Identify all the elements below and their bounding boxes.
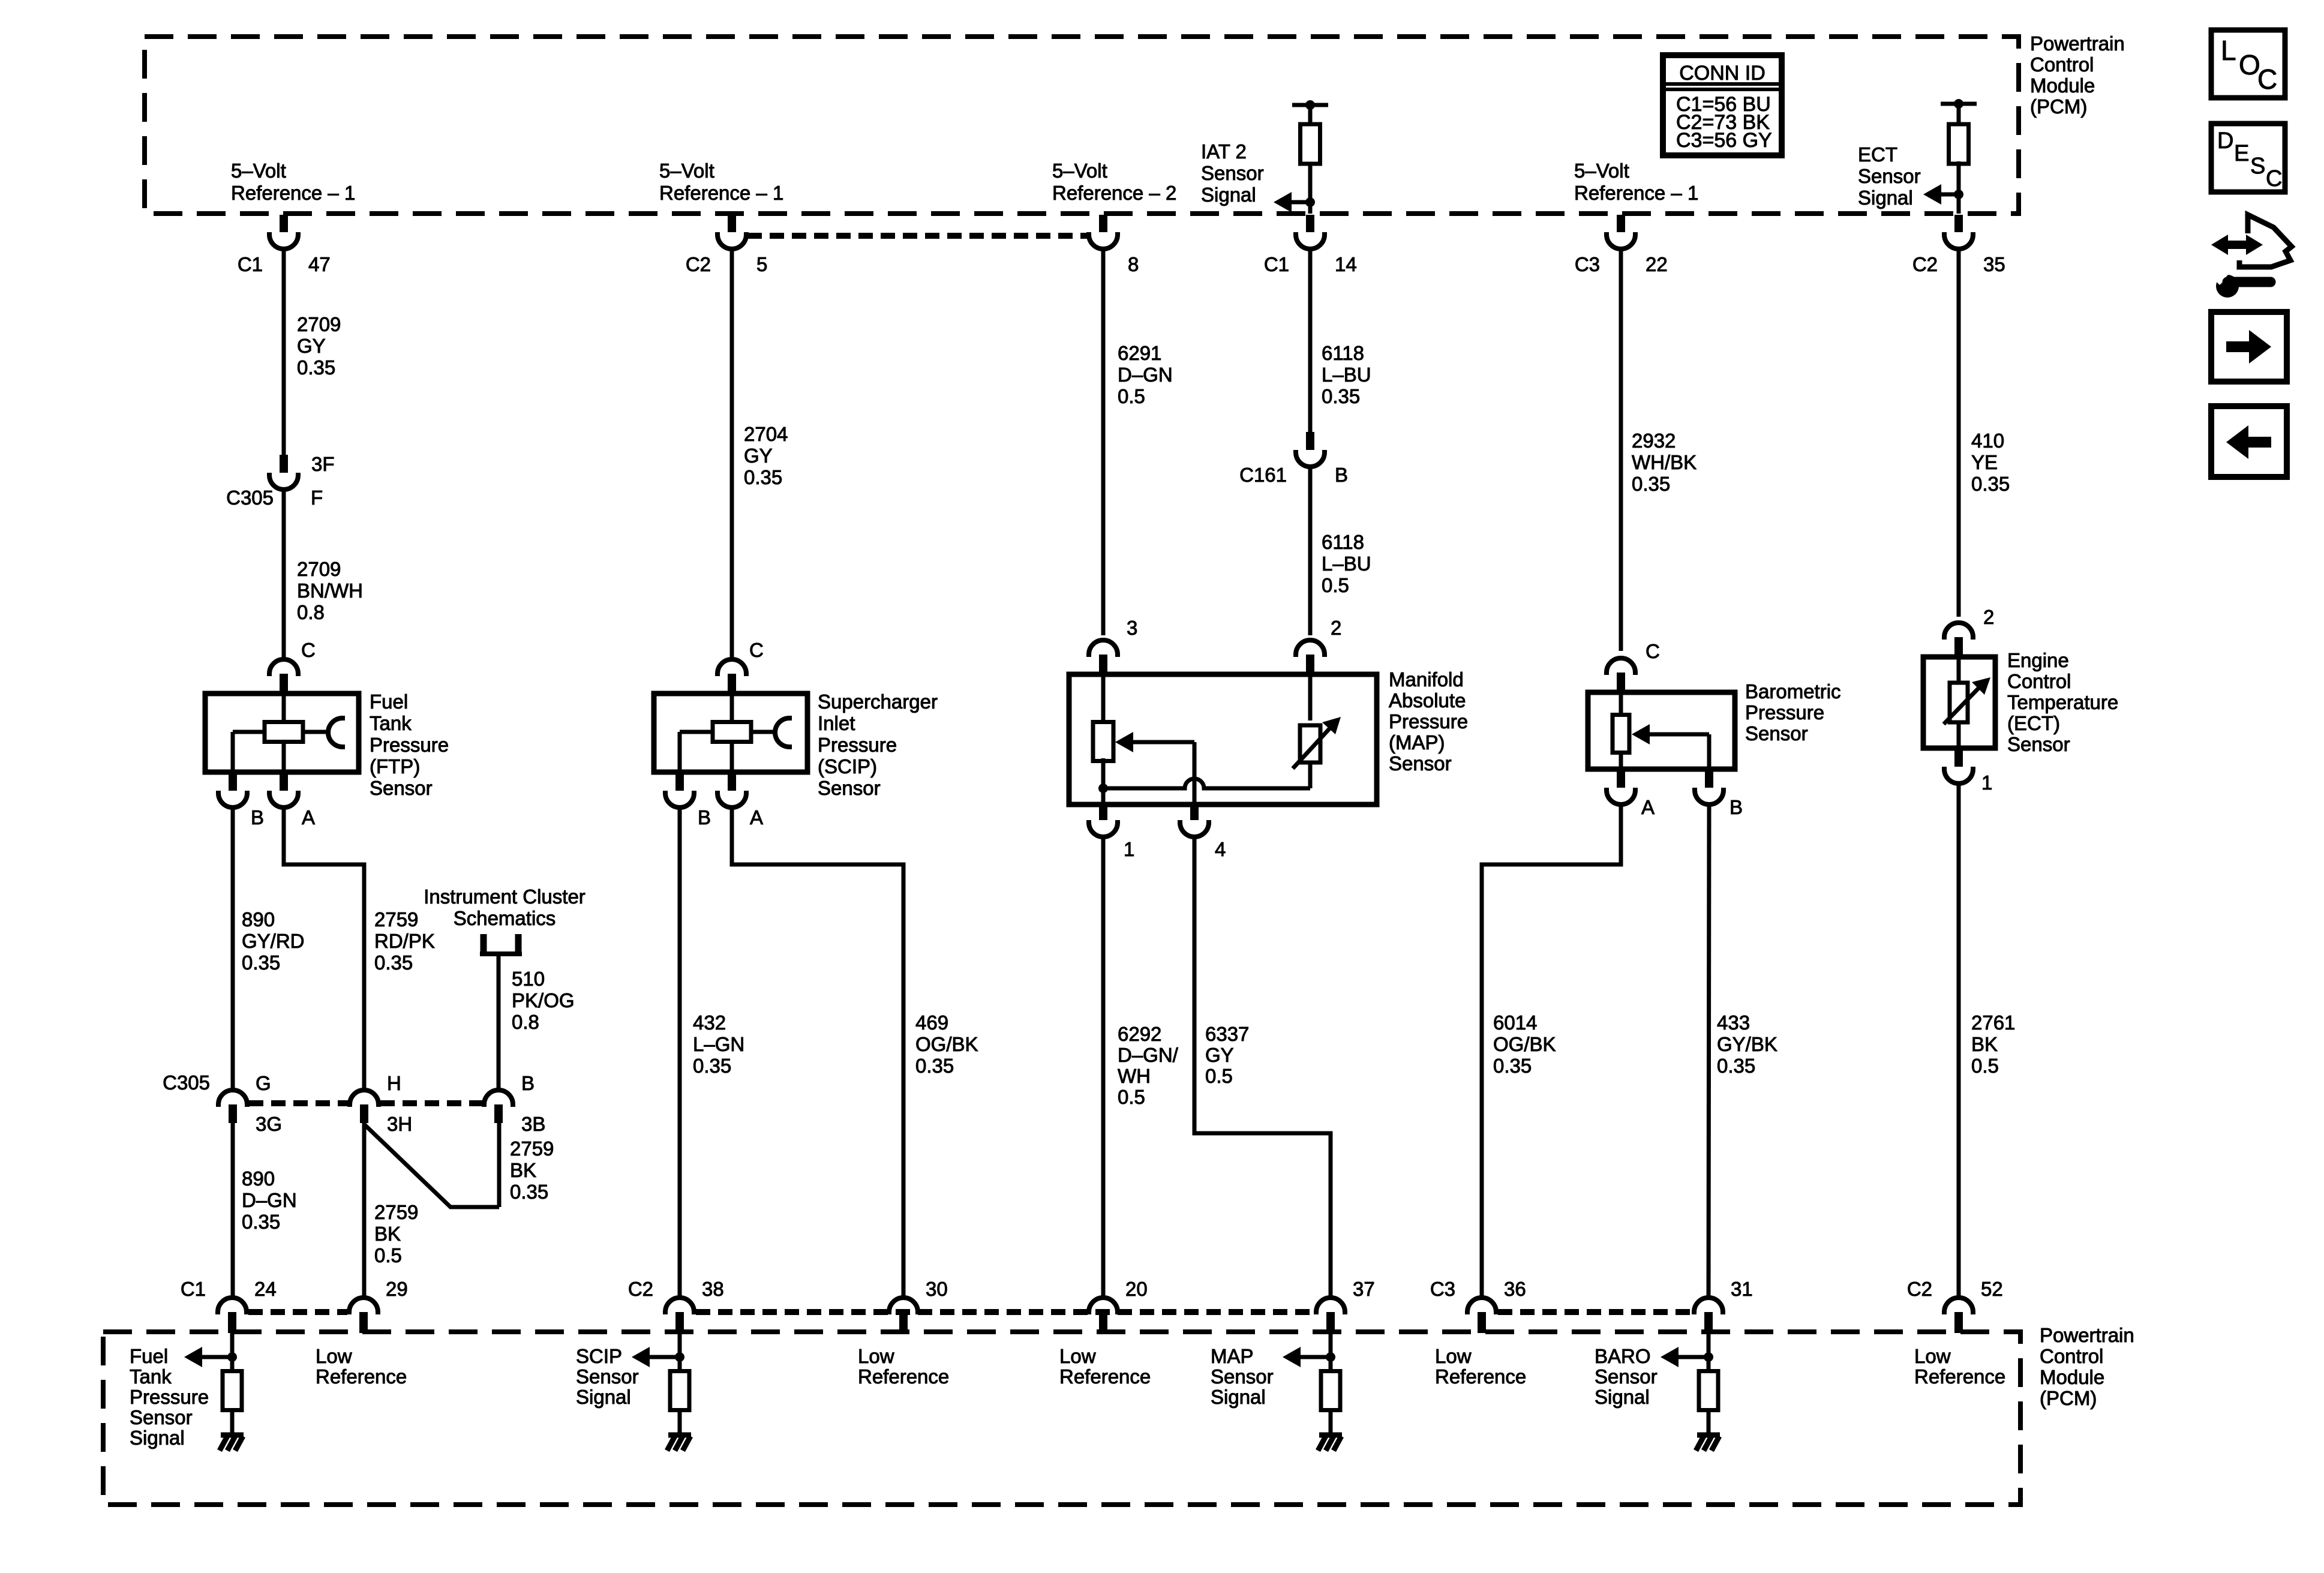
- svg-text:S: S: [2250, 154, 2265, 179]
- svg-text:Low: Low: [1914, 1345, 1951, 1367]
- svg-text:RD/PK: RD/PK: [374, 930, 435, 952]
- svg-text:C: C: [749, 639, 764, 661]
- svg-text:B: B: [1730, 796, 1743, 818]
- svg-text:L–GN: L–GN: [693, 1033, 744, 1055]
- svg-text:0.35: 0.35: [744, 466, 782, 488]
- svg-text:C2: C2: [686, 253, 711, 275]
- svg-text:2759: 2759: [374, 1201, 418, 1223]
- svg-text:6014: 6014: [1493, 1011, 1537, 1034]
- svg-text:Pressure: Pressure: [130, 1386, 209, 1408]
- svg-text:2709: 2709: [297, 558, 341, 580]
- svg-text:(FTP): (FTP): [370, 755, 420, 778]
- svg-text:3: 3: [1127, 617, 1137, 639]
- svg-text:0.8: 0.8: [512, 1011, 539, 1033]
- svg-text:5–Volt: 5–Volt: [231, 160, 286, 182]
- svg-text:2932: 2932: [1632, 430, 1676, 452]
- svg-text:2709: 2709: [297, 313, 341, 335]
- svg-text:IAT 2: IAT 2: [1201, 140, 1247, 163]
- svg-text:Fuel: Fuel: [370, 691, 408, 713]
- svg-text:L: L: [2221, 35, 2236, 66]
- svg-text:Reference – 1: Reference – 1: [659, 182, 783, 204]
- svg-text:0.5: 0.5: [1322, 574, 1349, 596]
- svg-text:C2: C2: [1907, 1278, 1932, 1300]
- svg-text:Signal: Signal: [1858, 187, 1913, 209]
- svg-text:Powertrain: Powertrain: [2030, 32, 2125, 55]
- svg-text:C3: C3: [1430, 1278, 1455, 1300]
- svg-text:890: 890: [242, 1167, 275, 1190]
- svg-text:BK: BK: [510, 1159, 536, 1181]
- svg-text:H: H: [387, 1072, 401, 1094]
- svg-text:0.35: 0.35: [1971, 473, 2010, 495]
- svg-text:Signal: Signal: [1211, 1386, 1266, 1408]
- svg-text:3F: 3F: [311, 453, 335, 475]
- svg-text:47: 47: [308, 253, 331, 275]
- svg-text:Sensor: Sensor: [1389, 752, 1452, 775]
- svg-text:CONN ID: CONN ID: [1679, 62, 1765, 85]
- svg-text:Sensor: Sensor: [2007, 733, 2070, 755]
- svg-text:ECT: ECT: [1858, 143, 1897, 166]
- svg-text:Signal: Signal: [1201, 184, 1256, 206]
- svg-text:C1: C1: [1264, 253, 1289, 275]
- svg-text:Control: Control: [2040, 1345, 2103, 1367]
- svg-text:1: 1: [1981, 772, 1992, 794]
- svg-text:2761: 2761: [1971, 1011, 2015, 1034]
- svg-text:Signal: Signal: [576, 1386, 631, 1408]
- svg-text:Sensor: Sensor: [1211, 1365, 1274, 1388]
- svg-text:Barometric: Barometric: [1745, 680, 1841, 703]
- svg-text:0.5: 0.5: [1118, 385, 1145, 407]
- svg-text:C2: C2: [628, 1278, 653, 1300]
- svg-text:F: F: [311, 487, 323, 509]
- svg-text:5–Volt: 5–Volt: [659, 160, 714, 182]
- svg-text:0.35: 0.35: [693, 1055, 731, 1077]
- svg-text:432: 432: [693, 1011, 726, 1034]
- svg-text:C305: C305: [226, 487, 274, 509]
- svg-text:Supercharger: Supercharger: [818, 691, 938, 713]
- svg-text:OG/BK: OG/BK: [915, 1033, 978, 1055]
- svg-text:Control: Control: [2030, 53, 2094, 76]
- svg-text:5–Volt: 5–Volt: [1574, 160, 1629, 182]
- svg-text:3B: 3B: [521, 1113, 545, 1135]
- svg-text:0.5: 0.5: [374, 1244, 402, 1266]
- svg-text:0.35: 0.35: [510, 1181, 548, 1203]
- svg-text:B: B: [1335, 464, 1348, 486]
- svg-text:Reference – 1: Reference – 1: [231, 182, 355, 204]
- svg-text:YE: YE: [1971, 451, 1998, 473]
- svg-text:37: 37: [1353, 1278, 1375, 1300]
- svg-text:PK/OG: PK/OG: [512, 989, 575, 1011]
- svg-text:A: A: [750, 806, 763, 828]
- svg-text:0.35: 0.35: [297, 356, 335, 379]
- svg-text:GY: GY: [297, 335, 326, 357]
- svg-text:8: 8: [1128, 253, 1139, 275]
- svg-text:52: 52: [1981, 1278, 2003, 1300]
- svg-text:A: A: [1641, 796, 1655, 818]
- svg-text:14: 14: [1335, 253, 1357, 275]
- svg-text:SCIP: SCIP: [576, 1345, 622, 1367]
- svg-text:A: A: [302, 806, 315, 828]
- svg-text:Pressure: Pressure: [1389, 710, 1468, 733]
- svg-text:Sensor: Sensor: [370, 777, 433, 799]
- svg-text:GY/RD: GY/RD: [242, 930, 305, 952]
- svg-text:Schematics: Schematics: [454, 907, 556, 929]
- svg-text:36: 36: [1504, 1278, 1526, 1300]
- svg-text:GY: GY: [744, 445, 773, 467]
- svg-text:2704: 2704: [744, 423, 788, 445]
- svg-text:30: 30: [926, 1278, 948, 1300]
- svg-text:D–GN: D–GN: [1118, 364, 1173, 386]
- svg-text:BARO: BARO: [1595, 1345, 1651, 1367]
- svg-text:C161: C161: [1239, 464, 1287, 486]
- svg-text:Reference: Reference: [858, 1365, 949, 1388]
- svg-text:B: B: [698, 806, 711, 828]
- svg-text:(PCM): (PCM): [2040, 1387, 2097, 1409]
- svg-text:0.35: 0.35: [242, 1211, 280, 1233]
- svg-text:433: 433: [1717, 1011, 1750, 1034]
- svg-text:24: 24: [254, 1278, 277, 1300]
- svg-text:510: 510: [512, 968, 545, 990]
- svg-text:29: 29: [386, 1278, 408, 1300]
- svg-text:0.5: 0.5: [1971, 1055, 1999, 1077]
- svg-text:5: 5: [756, 253, 767, 275]
- svg-text:0.35: 0.35: [1322, 385, 1360, 407]
- svg-text:Reference – 1: Reference – 1: [1574, 182, 1698, 204]
- svg-text:4: 4: [1215, 838, 1226, 860]
- svg-text:Fuel: Fuel: [130, 1345, 168, 1367]
- svg-text:6118: 6118: [1322, 342, 1364, 364]
- svg-text:38: 38: [702, 1278, 724, 1300]
- svg-text:C1: C1: [181, 1278, 206, 1300]
- svg-text:Control: Control: [2007, 670, 2071, 692]
- svg-text:0.35: 0.35: [374, 951, 413, 974]
- svg-text:0.5: 0.5: [1205, 1065, 1233, 1087]
- svg-text:D: D: [2217, 128, 2233, 154]
- svg-text:C3=56 GY: C3=56 GY: [1676, 129, 1772, 152]
- svg-text:Sensor: Sensor: [1201, 162, 1264, 184]
- svg-text:B: B: [251, 806, 264, 828]
- svg-text:D–GN: D–GN: [242, 1189, 297, 1211]
- svg-text:Reference: Reference: [1914, 1365, 2005, 1388]
- svg-text:Low: Low: [316, 1345, 352, 1367]
- svg-text:Sensor: Sensor: [130, 1406, 193, 1428]
- svg-text:GY: GY: [1205, 1044, 1234, 1066]
- svg-text:MAP: MAP: [1211, 1345, 1254, 1367]
- svg-text:Powertrain: Powertrain: [2040, 1324, 2134, 1346]
- svg-text:3H: 3H: [387, 1113, 412, 1135]
- svg-text:Inlet: Inlet: [818, 712, 855, 734]
- svg-text:Pressure: Pressure: [370, 734, 449, 756]
- svg-text:469: 469: [915, 1011, 948, 1034]
- svg-text:Reference – 2: Reference – 2: [1052, 182, 1176, 204]
- svg-text:3G: 3G: [256, 1113, 282, 1135]
- svg-text:Pressure: Pressure: [1745, 701, 1824, 724]
- svg-text:(SCIP): (SCIP): [818, 755, 877, 778]
- svg-text:35: 35: [1983, 253, 2005, 275]
- svg-text:L–BU: L–BU: [1322, 553, 1371, 575]
- svg-text:Reference: Reference: [1435, 1365, 1526, 1388]
- svg-text:Module: Module: [2040, 1366, 2104, 1388]
- svg-text:Instrument Cluster: Instrument Cluster: [424, 885, 585, 908]
- svg-text:410: 410: [1971, 430, 2004, 452]
- svg-text:0.35: 0.35: [1493, 1055, 1532, 1077]
- svg-text:Reference: Reference: [1059, 1365, 1151, 1388]
- svg-text:Low: Low: [858, 1345, 894, 1367]
- svg-text:Sensor: Sensor: [818, 777, 881, 799]
- svg-text:E: E: [2234, 141, 2249, 166]
- svg-text:(ECT): (ECT): [2007, 712, 2060, 734]
- svg-text:Sensor: Sensor: [576, 1365, 639, 1388]
- svg-text:Temperature: Temperature: [2007, 691, 2118, 713]
- svg-text:5–Volt: 5–Volt: [1052, 160, 1107, 182]
- svg-text:Reference: Reference: [316, 1365, 407, 1388]
- svg-text:C: C: [1646, 640, 1660, 662]
- svg-text:0.35: 0.35: [1717, 1055, 1755, 1077]
- svg-text:Tank: Tank: [130, 1365, 172, 1388]
- svg-text:BN/WH: BN/WH: [297, 580, 363, 602]
- svg-text:GY/BK: GY/BK: [1717, 1033, 1777, 1055]
- svg-text:0.35: 0.35: [242, 951, 280, 974]
- svg-text:31: 31: [1731, 1278, 1753, 1300]
- svg-text:2: 2: [1331, 617, 1341, 639]
- svg-text:Absolute: Absolute: [1389, 689, 1466, 712]
- svg-text:0.8: 0.8: [297, 601, 325, 623]
- svg-text:Sensor: Sensor: [1745, 722, 1808, 745]
- svg-text:B: B: [521, 1072, 535, 1094]
- svg-text:22: 22: [1646, 253, 1668, 275]
- svg-text:Sensor: Sensor: [1595, 1365, 1658, 1388]
- svg-text:6337: 6337: [1205, 1023, 1249, 1045]
- svg-text:Module: Module: [2030, 74, 2095, 97]
- svg-text:OG/BK: OG/BK: [1493, 1033, 1556, 1055]
- svg-text:C3: C3: [1575, 253, 1600, 275]
- svg-text:890: 890: [242, 908, 275, 930]
- svg-text:C2: C2: [1912, 253, 1938, 275]
- svg-text:6291: 6291: [1118, 342, 1161, 364]
- svg-text:0.5: 0.5: [1118, 1086, 1145, 1108]
- svg-text:Engine: Engine: [2007, 649, 2069, 671]
- svg-text:6292: 6292: [1118, 1023, 1161, 1045]
- svg-text:2759: 2759: [510, 1137, 554, 1160]
- svg-text:C: C: [2257, 64, 2277, 95]
- svg-text:Sensor: Sensor: [1858, 165, 1921, 187]
- svg-text:1: 1: [1124, 838, 1134, 860]
- svg-text:Low: Low: [1435, 1345, 1472, 1367]
- svg-text:G: G: [256, 1072, 271, 1094]
- svg-text:Signal: Signal: [130, 1427, 185, 1449]
- svg-text:C: C: [2266, 166, 2282, 191]
- svg-text:WH: WH: [1118, 1065, 1151, 1087]
- svg-text:(MAP): (MAP): [1389, 731, 1445, 754]
- svg-text:BK: BK: [374, 1223, 401, 1245]
- svg-text:2: 2: [1983, 606, 1994, 628]
- svg-text:Manifold: Manifold: [1389, 668, 1464, 691]
- svg-text:L–BU: L–BU: [1322, 364, 1371, 386]
- svg-text:Pressure: Pressure: [818, 734, 897, 756]
- svg-text:6118: 6118: [1322, 531, 1364, 553]
- svg-text:BK: BK: [1971, 1033, 1998, 1055]
- svg-text:0.35: 0.35: [915, 1055, 954, 1077]
- svg-text:Low: Low: [1059, 1345, 1096, 1367]
- svg-text:C1: C1: [238, 253, 263, 275]
- svg-text:Tank: Tank: [370, 712, 412, 734]
- svg-text:0.35: 0.35: [1632, 473, 1670, 495]
- svg-text:20: 20: [1125, 1278, 1148, 1300]
- svg-text:C: C: [301, 639, 316, 661]
- svg-text:D–GN/: D–GN/: [1118, 1044, 1179, 1066]
- svg-text:Signal: Signal: [1595, 1386, 1650, 1408]
- svg-text:2759: 2759: [374, 908, 418, 930]
- svg-text:C305: C305: [163, 1071, 210, 1094]
- svg-text:WH/BK: WH/BK: [1632, 451, 1697, 473]
- svg-text:(PCM): (PCM): [2030, 95, 2087, 118]
